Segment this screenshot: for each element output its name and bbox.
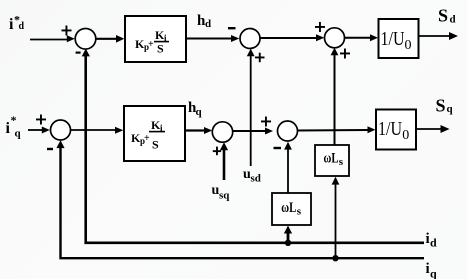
svg-text:q: q [447, 103, 454, 115]
svg-text:S: S [438, 6, 448, 26]
summing junction S2 [240, 29, 260, 49]
plus sign at S2 bottom [255, 53, 265, 63]
plus sign at S3 bottom [340, 49, 350, 59]
block 1/U0 (d axis) [379, 19, 419, 58]
wire i_d to omega-Ls 1 [284, 226, 292, 243]
svg-text:d: d [450, 14, 456, 26]
svg-text:s: s [339, 156, 344, 168]
plus sign at S4 [36, 115, 46, 125]
node h_q label [188, 100, 203, 118]
svg-text:q: q [15, 128, 22, 140]
wire u_sq to S5 [220, 142, 228, 180]
wire u_sd to S2 [247, 49, 255, 166]
wire S4 to PI block 2 [71, 127, 124, 134]
wire S5 to S6 [233, 128, 274, 135]
svg-text:0: 0 [405, 38, 412, 53]
svg-text:S: S [436, 96, 446, 116]
wire S_d output [419, 32, 459, 40]
node i_q label [426, 261, 438, 279]
block 1/U0 (q axis) [376, 110, 416, 150]
svg-text:1/U: 1/U [381, 28, 405, 50]
node i*_q input label [6, 113, 22, 140]
block PI controller 2 (Kp+Ki/S) [124, 106, 185, 161]
wire i_q to omega-Ls 2 [332, 177, 340, 257]
summing junction S1 [75, 29, 96, 50]
plus sign at S5 bottom [213, 147, 221, 156]
svg-text:d: d [430, 236, 437, 250]
svg-text:ωL: ωL [324, 151, 339, 167]
svg-text:*: * [11, 113, 17, 127]
node i*_d input label [9, 13, 25, 34]
svg-text:+: + [144, 133, 150, 144]
summing junction S6 [278, 121, 298, 141]
summing junction S3 [325, 28, 345, 48]
svg-text:s: s [297, 206, 302, 218]
wire S2 to S3 [260, 34, 324, 41]
wire i*_q input [28, 127, 50, 134]
svg-text:S: S [152, 138, 159, 152]
minus sign at S1 [76, 52, 81, 54]
node S_q output label [436, 96, 454, 116]
node u_sd label [243, 167, 261, 185]
wire S1 to PI block 1 [96, 35, 124, 43]
svg-text:0: 0 [402, 128, 409, 143]
node i_d label [426, 231, 438, 250]
svg-text:sq: sq [219, 190, 230, 202]
junction dot on i_d line [285, 240, 291, 246]
wire PI1 to S2 [186, 35, 239, 42]
svg-text:sd: sd [251, 173, 261, 185]
minus sign at S4 [47, 148, 53, 150]
wire i*_d input [30, 35, 75, 42]
block omega-Ls 1 (decoupling q) [272, 193, 311, 225]
wire i_d feedback [82, 49, 424, 243]
svg-text:+: + [148, 39, 154, 50]
svg-text:d: d [19, 21, 25, 32]
wire omega-Ls-2 output to S3 [331, 48, 339, 145]
node S_d output label [438, 6, 456, 26]
svg-text:S: S [157, 42, 164, 56]
junction dot on i_q line [332, 255, 338, 261]
plus sign at S1 [62, 26, 72, 36]
plus sign at S3 left [315, 22, 325, 32]
svg-text:1/U: 1/U [378, 118, 402, 140]
svg-text:q: q [196, 106, 203, 118]
svg-text:q: q [430, 267, 437, 279]
node u_sq label [212, 183, 231, 202]
wire S6 to divider block 1/U0 (q) [298, 126, 376, 133]
svg-text:ωL: ωL [281, 200, 296, 216]
summing junction S4 [51, 120, 71, 140]
wire S_q output [416, 125, 450, 133]
plus sign at S6 left [261, 117, 271, 127]
block PI controller 1 (Kp+Ki/S) [125, 16, 186, 62]
minus sign at S2 [228, 27, 236, 29]
node h_d label [197, 13, 211, 30]
block omega-Ls 2 (decoupling d) [315, 145, 349, 176]
wire i_q feedback [56, 140, 424, 258]
svg-text:d: d [205, 18, 211, 30]
wire S3 to divider block 1/U0 (d) [345, 34, 379, 41]
wire PI2 to S5 [185, 127, 212, 134]
summing junction S5 [212, 122, 232, 142]
minus sign at S6 [274, 147, 282, 149]
wire omega-Ls-1 output to S6 [284, 142, 292, 193]
